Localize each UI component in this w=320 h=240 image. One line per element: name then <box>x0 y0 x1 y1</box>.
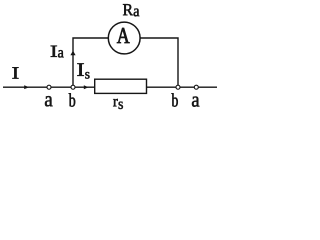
label a (right) <box>192 96 199 106</box>
label b (right) <box>172 93 178 106</box>
label b (left) <box>69 93 75 106</box>
label Ia <box>51 46 57 57</box>
current arrow Ia (up) <box>70 51 75 56</box>
current arrow I <box>24 85 29 89</box>
label Ra <box>123 4 133 15</box>
ammeter letter A <box>117 28 130 43</box>
wire: left branch up to ammeter <box>73 38 124 87</box>
terminal b (right) <box>176 85 180 89</box>
label rs <box>113 99 117 106</box>
wire: right branch down from ammeter <box>124 38 178 87</box>
label I <box>12 67 18 78</box>
terminal a (right) <box>194 85 198 89</box>
terminal a (left) <box>47 85 51 89</box>
wire: main horizontal conductor a-b-rs-b-a <box>3 86 217 88</box>
ammeter U1 circle <box>108 22 140 54</box>
current arrow Is <box>84 85 89 89</box>
label Is <box>77 63 84 75</box>
label a (left) <box>45 96 53 106</box>
resistor rs body <box>95 79 147 93</box>
terminal b (left) <box>71 85 75 89</box>
